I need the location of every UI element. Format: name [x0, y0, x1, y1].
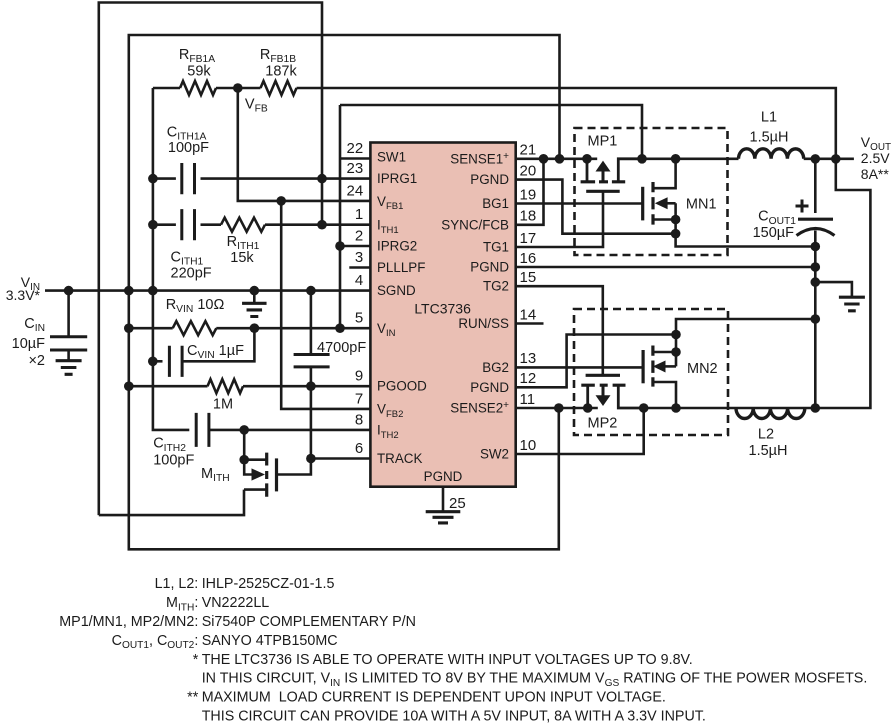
svg-text:22: 22 [347, 140, 364, 157]
svg-text:6: 6 [355, 440, 363, 457]
label 4700pF [317, 340, 366, 356]
svg-text:MN2: MN2 [687, 361, 718, 377]
svg-text:25: 25 [449, 495, 466, 512]
transistor MITH gate bar [275, 458, 278, 491]
junction dot (676,334.5) [671, 330, 681, 340]
svg-text:THIS CIRCUIT CAN PROVIDE 10A W: THIS CIRCUIT CAN PROVIDE 10A WITH A 5V I… [202, 709, 706, 725]
svg-text:220pF: 220pF [171, 265, 212, 281]
label L1 [761, 110, 777, 126]
svg-text:3.3V*: 3.3V* [6, 287, 41, 303]
label RFB1B [260, 47, 296, 65]
wire left net vertical x=152.9 with ITH2 line to CITH2 [153, 88, 189, 430]
junction dot (152.9,224.7) [148, 220, 158, 230]
junction dot (587,158.8) [582, 154, 592, 164]
svg-text:4: 4 [355, 272, 363, 289]
resistor R 1M [208, 379, 244, 393]
transistor MP2 body arrow down [596, 385, 611, 406]
wire VFB tap down to pin 24 VFB1 [238, 88, 371, 201]
junction dot (815.3,246.5) [811, 242, 821, 252]
label 15k [230, 250, 254, 266]
wire SENSE1+ line left segment from pin 21 [516, 158, 598, 161]
svg-text:1: 1 [355, 206, 363, 223]
wire PGND pin-12 route to MN2 source [516, 335, 676, 388]
svg-text:MP1: MP1 [588, 133, 618, 149]
transistor MP1 contact bars [581, 180, 626, 183]
svg-text:*: * [193, 652, 199, 668]
label x2 [28, 353, 45, 369]
label RVIN 10ohm [166, 297, 225, 315]
wire IPRG1 pin-23 line left segment [153, 177, 176, 180]
wire VIN-rail loop: right vertical to SENSE1+, top, left vertical, bottom rail, up to SENSE2+ [129, 35, 560, 549]
svg-text:17: 17 [520, 230, 537, 247]
junction dot (543.5,158.8) [539, 154, 549, 164]
svg-text:21: 21 [520, 142, 537, 159]
ground pin 25 [426, 512, 461, 523]
IC U1 LTC3736 body [370, 143, 515, 487]
svg-text:L1, L2:: L1, L2: [155, 576, 199, 592]
wire pin 3 PLLLPF floating stub [349, 266, 370, 269]
junction dot (815.3,267) [811, 262, 821, 272]
wire CITH2 to pin 8 ITH2 [209, 429, 371, 432]
label 10uF [12, 336, 45, 352]
svg-text:5: 5 [355, 310, 363, 327]
svg-text:IHLP-2525CZ-01-1.5: IHLP-2525CZ-01-1.5 [202, 576, 335, 592]
svg-text:THE LTC3736 IS ABLE TO OPERATE: THE LTC3736 IS ABLE TO OPERATE WITH INPU… [202, 652, 693, 668]
wire PGOOD line to 1M [129, 385, 208, 388]
label MP1 [588, 133, 618, 149]
transistor MP1 source stub [586, 159, 589, 182]
svg-text:3: 3 [355, 249, 363, 266]
wire TG2 pin-15 to MP2 gate [516, 286, 603, 375]
junction dot (128.8,328.2) [124, 323, 134, 333]
label L2 value [749, 443, 788, 459]
svg-text:RUN/SS: RUN/SS [458, 316, 509, 331]
label 8A** [861, 166, 890, 182]
svg-text:23: 23 [347, 160, 364, 177]
svg-text:IPRG2: IPRG2 [377, 239, 417, 254]
wire COUT1/gnd vertical chain [814, 159, 817, 408]
wire MITH source stub [244, 488, 267, 491]
node VFB junction dot [233, 83, 243, 93]
transistor MITH body arrow [252, 468, 266, 480]
label VOUT [861, 134, 891, 153]
wire CVIN right up to RVIN node [182, 328, 254, 361]
dashed box MP1/MN1 [575, 128, 728, 255]
label MP2 [588, 416, 618, 432]
label MN1 [686, 197, 717, 213]
pin numbers right side [520, 142, 537, 454]
svg-text:IPRG1: IPRG1 [377, 171, 417, 186]
capacitor CVIN 1uF [169, 346, 182, 377]
wire ITH2 node down to MITH drain and body arrow [244, 430, 267, 475]
label CVIN 1uF [187, 343, 244, 361]
label CITH2 [153, 436, 186, 454]
ground CIN [56, 350, 82, 374]
capacitor COUT1 top plate [798, 218, 833, 221]
wire SENSE2+ line left segment from pin 11 [516, 407, 598, 410]
svg-text:1.5µH: 1.5µH [750, 130, 789, 146]
junction dot (643.7,408) [639, 403, 649, 413]
transistor MP2 drain lead to switch node 2 [618, 385, 643, 408]
label MN2 [687, 361, 718, 377]
label VFB [245, 97, 268, 115]
svg-text:14: 14 [520, 306, 537, 323]
svg-text:MN1: MN1 [686, 197, 717, 213]
wire CVIN left stub [153, 360, 163, 363]
junction dot (835.8,158.9) [831, 154, 841, 164]
svg-text:13: 13 [520, 350, 537, 367]
svg-text:RVIN 10Ω: RVIN 10Ω [166, 297, 225, 315]
wire RUN/SS pin-14 floating stub [516, 322, 544, 325]
svg-text:1.5µH: 1.5µH [749, 443, 788, 459]
capacitor 4700pF [294, 355, 330, 367]
svg-text:MAXIMUM LOAD CURRENT IS DEPEN: MAXIMUM LOAD CURRENT IS DEPENDENT UPON I… [202, 690, 666, 706]
IC left pin labels [377, 150, 427, 467]
wire RFB1A to VFB node [216, 87, 238, 90]
junction dot (254.3,290.6) [250, 286, 260, 296]
junction dot (558.8,408) [554, 403, 564, 413]
svg-text:SYNC/FCB: SYNC/FCB [441, 217, 509, 232]
svg-text:TG1: TG1 [483, 240, 509, 255]
junction dot (815.3,408) [811, 403, 821, 413]
transistor MN1 drain stub [653, 159, 676, 188]
capacitor COUT1 plus sign [796, 200, 809, 213]
junction dot (815.3,158.9) [811, 154, 821, 164]
wire feedback line start [153, 87, 180, 90]
svg-text:PGND: PGND [470, 172, 509, 187]
svg-text:PGND: PGND [470, 260, 509, 275]
label L1 value [750, 130, 789, 146]
svg-text:MP2: MP2 [588, 416, 618, 432]
wire 4700pF bottom chain to MITH gate [277, 367, 311, 475]
wire outer loop (IPRG1/ITH1 net) left+top+right [99, 3, 322, 516]
svg-text:187k: 187k [265, 64, 297, 80]
svg-text:18: 18 [520, 208, 537, 225]
transistor MN2 gate bar [641, 350, 644, 383]
wire pin 6 TRACK line [311, 457, 371, 460]
junction dot (340,246) [335, 241, 345, 251]
svg-text:150µF: 150µF [753, 225, 795, 241]
junction dot (675.6,158.8) [671, 154, 681, 164]
resistor RITH1 15k [221, 218, 265, 232]
svg-text:TG2: TG2 [483, 279, 509, 294]
wire RITH1 to pin 1 ITH1 [265, 223, 370, 226]
transistor MITH channel contact bars [265, 453, 268, 497]
wire VFB1 to VFB2 pin 7 chain [281, 201, 370, 409]
junction dot (675.6,219.5) [671, 215, 681, 225]
junction dot (322,178.6) [317, 174, 327, 184]
wire BG2 pin-13 to MN2 gate [516, 366, 643, 369]
transistor MP2 contact bars [581, 384, 625, 387]
svg-text:15: 15 [520, 269, 537, 286]
wire SW1 pin-22 route over IC to switch node 1 [340, 105, 642, 328]
transistor MP1 body arrow up [596, 161, 611, 182]
svg-text:LTC3736: LTC3736 [414, 301, 471, 317]
svg-text:×2: ×2 [28, 353, 45, 369]
wire RVIN to pin 5 VIN [216, 327, 370, 330]
wire pin 2 IPRG2 stub [338, 245, 370, 248]
svg-text:59k: 59k [187, 64, 211, 80]
junction dot (559.5,158.8) [555, 154, 565, 164]
transistor MN1 gate bar [641, 187, 644, 221]
ground SGND symbol [242, 291, 266, 317]
inductor L1 1.5uH [739, 149, 804, 159]
label 2.5V [861, 150, 890, 166]
label RITH1 [227, 234, 260, 252]
junction dot (128.8,290.6) [124, 286, 134, 296]
svg-text:IN THIS CIRCUIT, VIN IS LIMITE: IN THIS CIRCUIT, VIN IS LIMITED TO 8V BY… [202, 671, 868, 689]
svg-text:24: 24 [347, 182, 364, 199]
label 187k [265, 64, 297, 80]
IC center label LTC3736 [414, 301, 471, 317]
svg-text:PLLLPF: PLLLPF [377, 260, 425, 275]
svg-text:4700pF: 4700pF [317, 340, 366, 356]
capacitor CITH2 100pF [196, 413, 209, 447]
wire 4700pF top chain from SGND line [310, 291, 313, 355]
svg-text:11: 11 [520, 391, 536, 408]
label CITH1 [171, 249, 204, 267]
pin numbers left side [347, 140, 364, 457]
svg-text:100pF: 100pF [168, 140, 209, 156]
junction dot (128.8,386.2) [124, 381, 134, 391]
wire SYNC/FCB pin-18 route to SENSE1+ line [516, 159, 544, 225]
svg-text:100pF: 100pF [153, 453, 194, 469]
svg-text:8A**: 8A** [861, 166, 890, 182]
junction dot (244.2,429.9) [239, 425, 249, 435]
svg-text:16: 16 [520, 250, 537, 267]
svg-text:1M: 1M [213, 397, 233, 413]
transistor MN1 body arrow [655, 197, 676, 209]
svg-text:**: ** [187, 690, 199, 706]
svg-text:SW1: SW1 [377, 150, 406, 165]
junction dot (676,352) [671, 347, 681, 357]
svg-text:BG1: BG1 [482, 196, 509, 211]
label 100pF [168, 140, 209, 156]
svg-text:PGOOD: PGOOD [377, 379, 427, 394]
ground output symbol [839, 297, 865, 311]
svg-text:BG2: BG2 [482, 360, 509, 375]
label 150uF [753, 225, 795, 241]
label 220pF [171, 265, 212, 281]
svg-text:9: 9 [355, 368, 363, 385]
pin 25 stub and label [443, 487, 466, 512]
label 100pF CITH2 [153, 453, 194, 469]
wire switch node 2 to L2 and right loop [644, 159, 871, 408]
transistor MN1 channel segments [651, 182, 654, 225]
junction dot (676,408) [671, 403, 681, 413]
capacitor CITH1A 100pF [182, 163, 195, 194]
junction dot (815.3,282.1) [811, 277, 821, 287]
wire bottom rail1 to MITH source [99, 490, 244, 515]
svg-text:SENSE2+: SENSE2+ [450, 400, 509, 416]
svg-text:12: 12 [520, 370, 537, 387]
wire output gnd tap [815, 282, 852, 297]
svg-text:2.5V: 2.5V [861, 150, 890, 166]
junction dot (310.9,458.5) [306, 454, 316, 464]
wire VFB to RFB1B [238, 87, 261, 90]
wire PGND pin-16 line to output gnd chain [516, 266, 816, 269]
notes text block [59, 576, 867, 724]
transistor MN2 source stub top [653, 351, 676, 354]
svg-text:19: 19 [520, 186, 537, 203]
wire BG1 pin-19 to MN1 gate [516, 202, 643, 205]
wire CITH1 to RITH1 [201, 223, 222, 226]
wire switch node 1 to L1 and VOUT [642, 158, 854, 161]
transistor MN2 drain stub to switch node 2 [653, 382, 676, 408]
resistor RFB1B 187k [261, 81, 297, 95]
label RFB1A [179, 47, 215, 65]
label COUT1 [758, 209, 796, 227]
label L2 [758, 427, 774, 443]
junction dot (152.9,178.6) [148, 174, 158, 184]
wire VIN/SGND horizontal line [45, 289, 370, 292]
resistor RFB1A 59k [180, 81, 216, 95]
inductor L2 1.5uH bump-down [736, 408, 805, 418]
capacitor CITH1 220pF [182, 209, 195, 240]
junction dot (642,158.8) [637, 154, 647, 164]
svg-text:L1: L1 [761, 110, 777, 126]
wire to RVIN [129, 327, 173, 330]
resistor RVIN 10ohm [173, 321, 217, 335]
junction dot (340,328.2) [335, 323, 345, 333]
wire PGND pin-20 route to MN1 source [516, 180, 676, 234]
junction dot (152.8,361.3) [148, 357, 158, 367]
junction dot (310.9,290.6) [306, 286, 316, 296]
junction dot (675.6,233.7) [671, 229, 681, 239]
label 59k [187, 64, 211, 80]
wire ITH1 pin-1 line left segment [153, 223, 176, 226]
svg-text:SGND: SGND [377, 283, 416, 298]
junction dot (310.9,386.2) [306, 381, 316, 391]
transistor MN2 channel segments [651, 346, 654, 387]
label 1M [213, 397, 233, 413]
label VIN input [21, 274, 40, 293]
svg-text:TRACK: TRACK [377, 451, 422, 466]
junction dot (152.8,290.6) [148, 286, 158, 296]
junction dot (587.7,408) [583, 403, 593, 413]
junction dot (815.3,319) [811, 314, 821, 324]
capacitor COUT1 curved plate [797, 229, 835, 236]
junction dot (322,224.7) [317, 220, 327, 230]
wire MN2 source chain up to gnd chain [676, 319, 815, 366]
svg-text:PGND: PGND [470, 380, 509, 395]
svg-text:15k: 15k [230, 250, 254, 266]
wire SW2 pin-10 route up to switch node 2 [516, 408, 644, 454]
junction dot (254.4,328.2) [250, 323, 260, 333]
wire IPRG1 pin-23 line right segment [201, 177, 371, 180]
wire TG1 pin-17 to MP1 gate [516, 191, 603, 247]
svg-text:10: 10 [520, 437, 537, 454]
wire MN1 source down to gnd chain [676, 203, 816, 246]
wire CIN stem [67, 291, 70, 337]
transistor MN2 body arrow [653, 361, 676, 373]
transistor MP1 gate bar [586, 190, 620, 193]
IC right pin labels [441, 151, 509, 462]
svg-text:7: 7 [355, 390, 363, 407]
svg-text:CVIN 1µF: CVIN 1µF [187, 343, 244, 361]
label 3.3V* [6, 287, 41, 303]
svg-text:8: 8 [355, 411, 363, 428]
junction dot (68.6,290.6) [64, 286, 74, 296]
svg-text:20: 20 [520, 162, 537, 179]
junction dot (244.2,459.7) [239, 455, 249, 465]
label CIN [24, 316, 45, 334]
wire RFB1B to VOUT corner down [297, 88, 836, 159]
svg-text:10µF: 10µF [12, 336, 45, 352]
svg-text:2: 2 [355, 228, 363, 245]
node VFB1/VFB2 junction dot [276, 196, 286, 206]
svg-text:MP1/MN1, MP2/MN2:: MP1/MN1, MP2/MN2: [59, 614, 198, 630]
label MITH [201, 466, 230, 484]
svg-text:SANYO 4TPB150MC: SANYO 4TPB150MC [202, 633, 338, 649]
svg-text:SW2: SW2 [480, 447, 509, 462]
label CITH1A [167, 124, 207, 142]
svg-text:Si7540P COMPLEMENTARY P/N: Si7540P COMPLEMENTARY P/N [202, 614, 416, 630]
svg-text:PGND: PGND [424, 469, 463, 484]
transistor MP2 source stub [586, 385, 589, 408]
transistor MP1 drain lead to switch node [618, 159, 642, 182]
transistor MP2 gate bar [586, 374, 620, 377]
svg-text:VN2222LL: VN2222LL [202, 595, 270, 611]
wire 1M to pin 9 PGOOD [243, 385, 370, 388]
svg-text:L2: L2 [758, 427, 774, 443]
svg-text:SENSE1+: SENSE1+ [450, 151, 509, 167]
transistor MN1 source stub [653, 218, 676, 221]
dashed box MP2/MN2 [574, 309, 728, 435]
capacitor CIN 10uF x2 [50, 337, 87, 350]
IC bottom label PGND [424, 469, 463, 484]
